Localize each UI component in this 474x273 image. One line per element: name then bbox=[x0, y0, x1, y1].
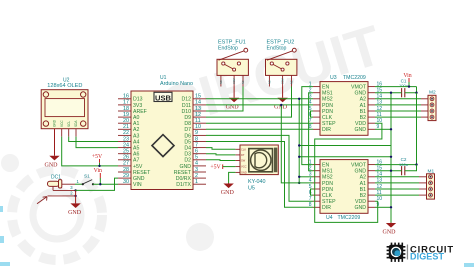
capacitor C1 100u bbox=[399, 79, 408, 98]
svg-text:CLK: CLK bbox=[322, 115, 333, 121]
svg-text:A2: A2 bbox=[360, 97, 366, 103]
DC jack DC1 bbox=[37, 175, 80, 204]
svg-text:D3: D3 bbox=[184, 152, 191, 158]
wire U3 GND to C1 bbox=[375, 92, 402, 94]
svg-text:U3: U3 bbox=[330, 75, 337, 81]
ground symbol for FU2 bbox=[274, 87, 288, 111]
svg-text:TMC2209: TMC2209 bbox=[343, 75, 366, 81]
U5 designator label bbox=[248, 179, 266, 191]
svg-text:GND: GND bbox=[241, 170, 247, 174]
svg-text:A3: A3 bbox=[133, 133, 139, 139]
wire D4 to encoder CLK bbox=[206, 148, 235, 150]
svg-text:8: 8 bbox=[195, 136, 198, 142]
svg-text:EndStop: EndStop bbox=[218, 46, 238, 52]
svg-text:VMOT: VMOT bbox=[351, 85, 367, 91]
GND bus on right bbox=[390, 93, 392, 223]
junction PDN bus bbox=[280, 104, 282, 106]
svg-text:30: 30 bbox=[123, 179, 129, 185]
svg-text:25: 25 bbox=[123, 149, 129, 155]
svg-text:4: 4 bbox=[195, 161, 198, 167]
svg-text:STEP: STEP bbox=[322, 121, 336, 127]
svg-text:DIR: DIR bbox=[322, 205, 331, 211]
wire OLED SDA to A5 bbox=[76, 137, 118, 148]
svg-text:COM: COM bbox=[233, 78, 236, 84]
junction ground link B left bbox=[298, 156, 300, 158]
svg-text:D5: D5 bbox=[184, 139, 191, 145]
svg-text:VMOT: VMOT bbox=[351, 163, 367, 169]
svg-text:27: 27 bbox=[123, 161, 129, 167]
U3 PDN-CLK bracket bbox=[311, 111, 314, 117]
ground symbol for OLED bbox=[45, 129, 60, 169]
junction MS2 bus top bbox=[298, 98, 300, 100]
svg-text:USB: USB bbox=[155, 93, 172, 102]
svg-text:EN: EN bbox=[322, 163, 329, 169]
junction GND bus at U4 pin9 bbox=[390, 206, 392, 208]
svg-text:U4: U4 bbox=[326, 215, 333, 221]
svg-text:17: 17 bbox=[123, 100, 129, 106]
wire EN bus bbox=[302, 87, 313, 165]
svg-text:11: 11 bbox=[195, 118, 201, 124]
svg-text:B1: B1 bbox=[360, 109, 366, 115]
stepper driver U4 TMC2209 body bbox=[309, 159, 383, 213]
svg-text:D12: D12 bbox=[181, 97, 191, 103]
svg-text:3V3: 3V3 bbox=[133, 103, 142, 109]
svg-text:14: 14 bbox=[195, 100, 201, 106]
svg-text:GND: GND bbox=[221, 190, 235, 196]
decorative watermark bbox=[1, 13, 389, 260]
svg-text:23: 23 bbox=[123, 136, 129, 142]
svg-text:SDA: SDA bbox=[74, 120, 78, 127]
wire S1 to Arduino VIN bbox=[93, 183, 118, 185]
CircuitDigest logo bbox=[387, 243, 454, 262]
svg-text:5: 5 bbox=[195, 155, 198, 161]
svg-text:M2: M2 bbox=[429, 90, 436, 96]
wire OLED SCL to A4 bbox=[69, 137, 118, 142]
junction ground link B right bbox=[390, 156, 392, 158]
junction MS2 at PDN feed bbox=[298, 182, 300, 184]
svg-text:COM: COM bbox=[282, 78, 285, 84]
junction GND bus at C2 bbox=[390, 170, 392, 172]
wire D11 to PDN bus bbox=[206, 104, 313, 106]
svg-text:28: 28 bbox=[123, 167, 129, 173]
svg-text:A1: A1 bbox=[360, 103, 366, 109]
stepper driver U3 TMC2209 body bbox=[309, 81, 383, 135]
U1 designator label bbox=[160, 75, 193, 87]
svg-text:D0/RX: D0/RX bbox=[176, 176, 192, 182]
switch S1 bbox=[82, 174, 94, 186]
svg-text:3: 3 bbox=[195, 167, 198, 173]
svg-text:DIGEST: DIGEST bbox=[410, 251, 445, 261]
svg-text:KY-040: KY-040 bbox=[248, 179, 266, 185]
svg-text:MS1: MS1 bbox=[322, 91, 333, 97]
svg-text:DIR: DIR bbox=[322, 127, 331, 133]
svg-text:2: 2 bbox=[195, 173, 198, 179]
svg-text:12: 12 bbox=[195, 112, 201, 118]
wire MS1 bus bbox=[309, 93, 313, 171]
svg-text:9: 9 bbox=[195, 130, 198, 136]
Arduino Nano U1 body bbox=[131, 91, 193, 190]
wire encoder GND to ground bbox=[229, 172, 236, 183]
+5V net label at encoder bbox=[210, 164, 235, 170]
motor connector M2 bbox=[421, 90, 436, 121]
ground symbol for encoder bbox=[221, 183, 235, 196]
svg-text:Arduino Nano: Arduino Nano bbox=[160, 81, 193, 87]
wire DC1 tip to S1 bbox=[75, 183, 83, 185]
svg-text:D11: D11 bbox=[182, 103, 191, 109]
svg-text:7: 7 bbox=[195, 142, 198, 148]
svg-text:A2: A2 bbox=[133, 127, 139, 133]
wire U3 VMOT rail bbox=[375, 86, 417, 88]
svg-text:A1: A1 bbox=[133, 121, 139, 127]
svg-text:16: 16 bbox=[123, 94, 129, 100]
svg-text:PDN: PDN bbox=[322, 103, 333, 109]
svg-text:GND: GND bbox=[45, 162, 59, 168]
blue screen artifacts bbox=[0, 206, 474, 267]
svg-text:128x64 OLED: 128x64 OLED bbox=[47, 83, 82, 89]
svg-text:D7: D7 bbox=[184, 127, 191, 133]
svg-text:GND: GND bbox=[354, 127, 366, 133]
capacitor C2 100u bbox=[399, 157, 408, 175]
svg-text:DT: DT bbox=[241, 153, 245, 157]
svg-text:100u: 100u bbox=[399, 83, 408, 88]
svg-text:GND: GND bbox=[179, 164, 191, 170]
wires U4 phases to M1 bbox=[375, 177, 419, 195]
svg-text:SCL: SCL bbox=[67, 121, 71, 127]
svg-text:AREF: AREF bbox=[133, 109, 147, 115]
OLED display U2 bbox=[41, 90, 88, 137]
junction MS2 feed bbox=[298, 176, 300, 178]
svg-text:CLK: CLK bbox=[322, 193, 333, 199]
svg-text:B2: B2 bbox=[360, 115, 366, 121]
wire D5 to U4 DIR bbox=[206, 142, 313, 208]
svg-text:D2: D2 bbox=[184, 158, 191, 164]
svg-text:21: 21 bbox=[123, 124, 129, 130]
U1 right pins and numbers bbox=[174, 94, 206, 189]
svg-text:A6: A6 bbox=[133, 152, 139, 158]
svg-text:VIN: VIN bbox=[133, 182, 142, 188]
junction C1 right bbox=[415, 92, 417, 94]
ground symbol for driver bus bbox=[383, 223, 397, 236]
wire ground link A bbox=[299, 145, 391, 147]
svg-text:RESET: RESET bbox=[174, 170, 192, 176]
svg-text:15: 15 bbox=[195, 94, 201, 100]
junction Vin at U4 VMOT bbox=[415, 163, 417, 165]
wire D12 to MS2 bus bbox=[206, 98, 313, 100]
svg-text:GND: GND bbox=[383, 230, 397, 236]
svg-text:19: 19 bbox=[123, 112, 129, 118]
motor connector M1 bbox=[419, 168, 435, 199]
Vin net label at S1 bbox=[94, 168, 102, 184]
svg-text:U5: U5 bbox=[248, 186, 255, 192]
svg-text:A0: A0 bbox=[133, 115, 139, 121]
svg-text:VDD: VDD bbox=[355, 121, 366, 127]
svg-text:EN: EN bbox=[322, 85, 329, 91]
U2 designator label bbox=[47, 77, 82, 89]
svg-text:CLK: CLK bbox=[241, 147, 246, 151]
svg-text:GND: GND bbox=[133, 176, 145, 182]
wire MS2 bus vertical bbox=[299, 99, 313, 183]
junction Vin at VMOT bbox=[408, 85, 410, 87]
wire D3 to encoder DT bbox=[206, 154, 235, 155]
wire Arduino GND to DC ground bbox=[76, 178, 118, 190]
svg-text:VDD: VDD bbox=[355, 199, 366, 205]
svg-text:13: 13 bbox=[195, 106, 201, 112]
svg-text:D4: D4 bbox=[184, 146, 191, 152]
svg-text:22: 22 bbox=[123, 130, 129, 136]
wire +5V VDD loop bbox=[315, 123, 382, 222]
ground symbol at DC jack bbox=[68, 190, 82, 216]
svg-text:18: 18 bbox=[123, 106, 129, 112]
junction Vin node bbox=[99, 183, 101, 185]
svg-text:MS2: MS2 bbox=[322, 175, 333, 181]
wire C2 to Vin bus bbox=[405, 165, 417, 171]
ground symbol for FU1 bbox=[226, 87, 240, 111]
svg-text:U1: U1 bbox=[160, 75, 167, 81]
wire OLED VCC to +5V rail bbox=[62, 137, 118, 166]
svg-text:ESTP_FU2: ESTP_FU2 bbox=[267, 39, 295, 45]
svg-text:RESET: RESET bbox=[133, 170, 151, 176]
svg-text:NO: NO bbox=[268, 80, 271, 84]
svg-text:A5: A5 bbox=[133, 146, 139, 152]
Vin net label at U3 bbox=[403, 73, 411, 87]
wire D6 to U4 STEP bbox=[206, 135, 313, 201]
svg-text:NO: NO bbox=[220, 80, 223, 84]
svg-text:MS1: MS1 bbox=[322, 169, 333, 175]
svg-text:A2: A2 bbox=[360, 175, 366, 181]
wire U4 VMOT rail bbox=[375, 164, 417, 166]
svg-text:STEP: STEP bbox=[322, 199, 336, 205]
svg-text:GND: GND bbox=[354, 205, 366, 211]
svg-text:B2: B2 bbox=[360, 193, 366, 199]
svg-text:20: 20 bbox=[123, 118, 129, 124]
svg-text:Vin: Vin bbox=[94, 168, 102, 174]
U1 left pins and numbers bbox=[118, 94, 151, 189]
svg-text:D1/TX: D1/TX bbox=[176, 182, 191, 188]
svg-text:PDN: PDN bbox=[322, 181, 333, 187]
svg-text:D13: D13 bbox=[133, 97, 143, 103]
svg-text:D6: D6 bbox=[184, 133, 191, 139]
wire ground link B bbox=[299, 156, 391, 158]
svg-text:26: 26 bbox=[123, 155, 129, 161]
svg-text:NC: NC bbox=[290, 80, 293, 84]
svg-text:GND: GND bbox=[53, 119, 57, 127]
svg-text:PDN: PDN bbox=[322, 109, 333, 115]
svg-text:MS2: MS2 bbox=[322, 97, 333, 103]
junction GND bus top bbox=[390, 92, 392, 94]
wire FU1 NC to Arduino D10 bbox=[206, 87, 243, 112]
endstop switch FU2 bbox=[266, 39, 297, 86]
svg-text:S1: S1 bbox=[84, 174, 90, 179]
svg-text:NC: NC bbox=[242, 80, 245, 84]
wire D8 to U3 STEP bbox=[206, 122, 313, 124]
svg-text:24: 24 bbox=[123, 142, 129, 148]
junction DC ground A bbox=[74, 189, 76, 191]
svg-text:D9: D9 bbox=[184, 115, 191, 121]
svg-text:100u: 100u bbox=[399, 162, 408, 167]
junction ground link A bbox=[298, 144, 300, 146]
svg-text:Vin: Vin bbox=[403, 73, 411, 79]
svg-text:A7: A7 bbox=[133, 158, 139, 164]
svg-text:VCC: VCC bbox=[60, 120, 64, 127]
svg-text:GND: GND bbox=[68, 210, 82, 216]
svg-text:29: 29 bbox=[123, 173, 129, 179]
svg-text:+5V: +5V bbox=[92, 154, 103, 160]
svg-text:GND: GND bbox=[354, 91, 366, 97]
svg-text:ESTP_FU1: ESTP_FU1 bbox=[218, 39, 246, 45]
rotary encoder U5 KY-040 bbox=[235, 145, 278, 175]
wire Vin bus down to U4 VMOT bbox=[416, 93, 418, 165]
svg-text:6: 6 bbox=[195, 149, 198, 155]
+5V net label at OLED rail bbox=[92, 154, 103, 166]
junction DC ground B bbox=[74, 195, 76, 197]
svg-text:EndStop: EndStop bbox=[267, 46, 287, 52]
svg-text:D10: D10 bbox=[181, 109, 191, 115]
svg-text:D8: D8 bbox=[184, 121, 191, 127]
wire C1 to Vin bus bbox=[405, 87, 417, 93]
wire D7 to U3 DIR bbox=[206, 128, 313, 130]
junction +5V rail bbox=[98, 165, 100, 167]
svg-text:VCC: VCC bbox=[241, 165, 247, 169]
endstop switch FU1 bbox=[217, 39, 248, 86]
svg-text:A4: A4 bbox=[133, 139, 139, 145]
U4 PDN-CLK bracket bbox=[311, 189, 314, 195]
U4 designator label bbox=[326, 215, 360, 221]
svg-text:A1: A1 bbox=[360, 181, 366, 187]
svg-text:+5V: +5V bbox=[210, 165, 221, 171]
svg-text:GND: GND bbox=[354, 169, 366, 175]
wire FU2 NC to Arduino D9 bbox=[206, 87, 292, 118]
svg-text:B1: B1 bbox=[360, 187, 366, 193]
junction GND bus at U3 pin9 bbox=[390, 128, 392, 130]
svg-text:+5V: +5V bbox=[133, 164, 143, 170]
wire U4 GND to C2 bbox=[375, 170, 402, 172]
svg-text:TMC2209: TMC2209 bbox=[338, 215, 361, 221]
wire U4 pin9 GND bbox=[375, 206, 391, 208]
svg-text:SW: SW bbox=[241, 159, 246, 163]
svg-text:1: 1 bbox=[195, 179, 198, 185]
wire U3 pin9 GND bbox=[375, 128, 391, 130]
wires U3 phases to M2 bbox=[375, 99, 421, 117]
wire D2 to encoder SW bbox=[206, 159, 235, 162]
wire PDN bus vertical bbox=[281, 105, 313, 183]
U3 designator label bbox=[330, 75, 366, 81]
svg-text:10: 10 bbox=[195, 124, 201, 130]
svg-text:PDN: PDN bbox=[322, 187, 333, 193]
